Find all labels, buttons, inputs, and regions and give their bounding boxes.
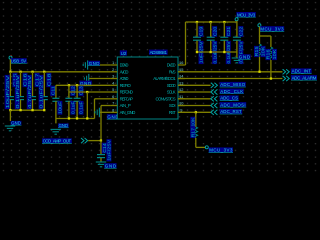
wire R15 bottom lead xyxy=(259,57,261,72)
ground filter cap xyxy=(96,162,106,167)
wire pullup bus xyxy=(260,35,271,37)
wire AIN_P drop xyxy=(100,106,102,141)
wire cap C21 upper lead xyxy=(223,22,225,37)
junction bank1 gnd 2 xyxy=(31,109,33,111)
junction AVDD bus 4 xyxy=(43,71,45,73)
wire cap C20 lower lead xyxy=(210,41,212,52)
wire REFCAP xyxy=(95,98,111,100)
ground AIN_GND xyxy=(95,108,99,117)
junction AVDD bus 1 xyxy=(9,71,11,73)
svg-text:0.1uF/25V: 0.1uF/25V xyxy=(15,75,20,108)
value R15 10K xyxy=(261,46,266,57)
designator C20 xyxy=(212,26,217,37)
capacitor C14 xyxy=(97,155,105,158)
wire cap C13 upper lead xyxy=(76,85,78,98)
designator C11 xyxy=(50,86,55,96)
wire cap C17 lower lead xyxy=(32,100,34,111)
wire AIN_GND xyxy=(100,111,111,113)
junction bank1 gnd 3 xyxy=(43,109,45,111)
value 0.1uF/25V xyxy=(39,75,44,109)
svg-text:R16: R16 xyxy=(266,49,271,60)
pin 11 stub xyxy=(178,98,185,100)
designator C15 xyxy=(13,73,18,88)
svg-text:6: 6 xyxy=(112,94,114,99)
designator C19 xyxy=(199,26,204,37)
net label MCU_3V3 bottom xyxy=(209,147,233,152)
capacitor C16 xyxy=(17,97,24,100)
pin 9 stub xyxy=(178,111,185,113)
chevron CCD_AMP_OUT xyxy=(81,138,88,143)
svg-text:0.1uF: 0.1uF xyxy=(79,101,84,114)
junction AVDD bus 3 xyxy=(31,71,33,73)
wire R16 top lead xyxy=(270,36,272,47)
wire bank1 gnd stem xyxy=(9,110,11,121)
wire ADC_CLK xyxy=(178,91,211,93)
designator C13 xyxy=(79,86,84,96)
junction bank3 gnd at 211 xyxy=(210,51,212,53)
svg-text:R17 10K: R17 10K xyxy=(190,117,195,137)
wire bank3 gnd bus xyxy=(197,51,237,53)
junction bank2 gnd 3 xyxy=(86,117,88,119)
chevron ADC_ALARM xyxy=(283,76,290,81)
svg-text:ADC_ALARM: ADC_ALARM xyxy=(292,75,317,80)
svg-text:GND: GND xyxy=(11,120,21,125)
pin 4 stub xyxy=(110,84,117,86)
svg-text:MCU_3V3: MCU_3V3 xyxy=(237,12,256,17)
capacitor C21 xyxy=(220,37,228,40)
net label USB_5V xyxy=(10,58,27,63)
svg-text:AGND: AGND xyxy=(120,76,129,81)
svg-text:RVS: RVS xyxy=(169,70,176,75)
capacitor C12 xyxy=(65,98,72,101)
op-amp U2 ADS8681 body xyxy=(117,57,178,119)
capacitor C20 xyxy=(207,37,215,40)
pin 2 stub xyxy=(110,71,117,73)
wire cap C22 upper lead xyxy=(236,22,238,37)
resistor R15 xyxy=(258,44,262,57)
svg-text:GND: GND xyxy=(89,61,100,66)
pin 12 stub xyxy=(178,91,185,93)
chevron ADC_RST xyxy=(211,110,218,115)
ground label GND filter xyxy=(104,163,116,168)
junction REFIO bus 2 xyxy=(76,84,78,86)
wire cap C12 upper lead xyxy=(68,85,70,98)
capacitor C19 xyxy=(193,37,201,40)
power port MCU_3V3 top circle xyxy=(235,18,238,21)
svg-text:ADC_INT: ADC_INT xyxy=(292,69,312,74)
svg-text:8: 8 xyxy=(112,108,114,113)
designator C22 xyxy=(238,26,243,37)
ground label GND ain_gnd xyxy=(107,114,119,119)
wire bank2 gnd stem xyxy=(55,119,57,124)
svg-text:CONVST/CS: CONVST/CS xyxy=(156,97,176,102)
wire cap C16 upper lead xyxy=(20,72,22,97)
pin 7 stub xyxy=(110,105,117,107)
value 10uF/25V xyxy=(5,75,10,109)
junction bank3 gnd at 224 xyxy=(223,51,225,53)
pin hotspot dot xyxy=(11,55,12,56)
pin 15 stub xyxy=(178,71,185,73)
wire cap C11 lower lead xyxy=(55,101,57,118)
value 0.1uF xyxy=(79,101,84,115)
wire AVDD bus xyxy=(10,71,110,73)
junction AVDD bus 2 xyxy=(19,71,21,73)
svg-text:7: 7 xyxy=(112,101,114,106)
junction CCD node xyxy=(100,139,102,141)
pin 14 stub xyxy=(178,78,185,80)
wire RVS to ADC_INT xyxy=(178,71,282,73)
ground label GND dgnd xyxy=(88,61,100,66)
value 1uF/25V xyxy=(199,41,204,64)
designator R15 xyxy=(254,46,259,57)
designator C21 xyxy=(226,26,231,37)
svg-text:GND: GND xyxy=(105,164,116,169)
svg-text:AIN_GND: AIN_GND xyxy=(120,110,136,115)
wire cap C13 lower lead xyxy=(76,101,78,118)
chevron ADC_INT xyxy=(283,69,290,74)
wire cap C18 lower lead xyxy=(43,100,45,111)
power port MCU_3V3 mid circle xyxy=(258,24,261,27)
svg-text:ADS8681: ADS8681 xyxy=(150,50,168,55)
wire USB_5V drop xyxy=(9,59,11,72)
pin 1 stub xyxy=(110,64,117,66)
capacitor C18 xyxy=(41,97,48,100)
svg-text:C11: C11 xyxy=(50,86,55,96)
net label ADC_ALARM xyxy=(291,75,317,80)
designator C17 xyxy=(35,73,40,88)
net label CCD_AMP_OUT xyxy=(42,138,72,143)
svg-text:C20: C20 xyxy=(212,26,217,36)
svg-text:ADC_CLK: ADC_CLK xyxy=(220,89,243,94)
chevron ADC_MISO xyxy=(211,83,218,88)
wire R17 to MCU_3V3 xyxy=(196,146,205,148)
wire REFGND xyxy=(69,91,111,93)
wire cap C17 upper lead xyxy=(32,72,34,97)
svg-text:1uF/25V: 1uF/25V xyxy=(107,140,112,161)
svg-text:16: 16 xyxy=(179,60,183,65)
net label ADC_INT xyxy=(291,68,312,73)
junction bank2 gnd 2 xyxy=(76,117,78,119)
net label MCU_3V3 top xyxy=(236,12,255,17)
designator C14 xyxy=(102,143,107,154)
svg-text:DVDD: DVDD xyxy=(167,63,176,68)
svg-text:5: 5 xyxy=(112,87,114,92)
wire cap C15 lower lead xyxy=(9,100,11,111)
chevron ADC_CS xyxy=(211,96,218,101)
wire DVDD riser xyxy=(185,22,187,65)
svg-text:C12: C12 xyxy=(71,86,76,96)
wire bank2 gnd bus xyxy=(56,118,95,120)
capacitor C17 xyxy=(29,97,36,100)
junction bank1 gnd 0 xyxy=(9,109,11,111)
svg-text:REFCAP: REFCAP xyxy=(120,97,134,102)
junction REFGND xyxy=(86,91,88,93)
svg-text:ALARM/SDO1: ALARM/SDO1 xyxy=(153,76,176,81)
wire R17 top lead xyxy=(195,112,197,127)
wire ADC_MISO xyxy=(178,84,211,86)
svg-text:ADC_MISO: ADC_MISO xyxy=(220,82,246,87)
capacitor C15 xyxy=(7,97,14,100)
svg-text:CCD_AMP_OUT: CCD_AMP_OUT xyxy=(43,139,72,144)
wire REFIO cap1 drop xyxy=(55,85,57,98)
wire bank1 gnd bus xyxy=(10,109,44,111)
ground label GND agnd xyxy=(79,81,91,86)
wire cap C20 upper lead xyxy=(210,22,212,37)
net label ADC_MISO xyxy=(220,82,246,87)
value R16 10K xyxy=(272,49,277,60)
value 0.1uF xyxy=(70,101,75,115)
ground AGND xyxy=(84,74,88,83)
wire CCD_AMP_OUT xyxy=(88,140,101,142)
wire cap C19 lower lead xyxy=(196,41,198,52)
svg-text:DGND: DGND xyxy=(120,63,129,68)
capacitor C11 xyxy=(52,98,59,101)
wire filter cap upper lead xyxy=(100,141,102,155)
wire cap C19 upper lead xyxy=(196,22,198,37)
wire R15 top lead xyxy=(259,36,261,44)
wire pullup drop xyxy=(259,27,261,36)
value 4.7uF/25V xyxy=(27,75,32,109)
part name ADS8681 xyxy=(149,50,168,56)
wire DVDD bus xyxy=(186,21,237,23)
pin 8 stub xyxy=(110,111,117,113)
svg-text:10uF/25V: 10uF/25V xyxy=(5,75,10,108)
pin 6 stub xyxy=(110,98,117,100)
resistor R17 xyxy=(194,127,198,138)
pin 3 stub xyxy=(110,78,117,80)
chevron ADC_CLK xyxy=(211,89,218,94)
wire R16 bottom lead xyxy=(270,60,272,79)
ground DGND xyxy=(83,60,87,69)
wire cap C21 lower lead xyxy=(223,41,225,52)
wire DGND xyxy=(88,64,110,66)
junction DVDD bus at 224 xyxy=(223,21,225,23)
junction RST pullup xyxy=(195,111,197,113)
junction DVDD bus at 197 xyxy=(196,21,198,23)
wire ADC_MOSI xyxy=(178,105,211,107)
svg-text:10uF: 10uF xyxy=(58,101,63,114)
svg-text:3: 3 xyxy=(112,74,114,79)
svg-text:ADC_MOSI: ADC_MOSI xyxy=(220,102,245,107)
wire ADC_RST xyxy=(178,111,211,113)
wire R17 bottom lead xyxy=(195,138,197,147)
svg-text:USB_5V: USB_5V xyxy=(11,59,27,64)
ground label GND bank2 xyxy=(58,123,69,128)
svg-text:REFIO: REFIO xyxy=(120,83,132,88)
ground bank2 xyxy=(51,129,61,134)
svg-text:SDI: SDI xyxy=(169,103,176,108)
value 0.1uF/25V xyxy=(226,41,231,64)
svg-text:ADC_RST: ADC_RST xyxy=(220,109,242,114)
svg-text:C18: C18 xyxy=(47,73,52,87)
wire AGND xyxy=(89,78,110,80)
svg-text:10K: 10K xyxy=(272,49,277,59)
junction R15 ADC_INT xyxy=(258,71,260,73)
svg-text:4.7uF/25V: 4.7uF/25V xyxy=(27,75,32,108)
svg-text:0.1uF: 0.1uF xyxy=(71,101,76,114)
ground label GND bank1 xyxy=(11,120,22,125)
designator value R17 10K xyxy=(190,117,195,138)
svg-text:C13: C13 xyxy=(79,86,84,96)
svg-text:C19: C19 xyxy=(199,26,204,36)
svg-text:1: 1 xyxy=(112,60,114,65)
chevron ADC_MOSI xyxy=(211,103,218,108)
svg-text:C22: C22 xyxy=(239,26,244,36)
designator R16 xyxy=(265,49,270,60)
svg-text:SDO0: SDO0 xyxy=(167,83,177,88)
value 10uF xyxy=(57,101,62,115)
designator C16 xyxy=(23,73,28,88)
net label ADC_CLK xyxy=(220,89,244,94)
wire cap C15 upper lead xyxy=(9,72,11,97)
svg-text:SCLK: SCLK xyxy=(167,90,176,95)
wire cap C12 lower lead xyxy=(68,101,70,118)
pin 10 stub xyxy=(178,105,185,107)
svg-text:C21: C21 xyxy=(226,26,231,36)
wire cap C22 lower lead xyxy=(236,41,238,52)
value 0.1uF/25V xyxy=(238,41,243,64)
wire cap C16 lower lead xyxy=(20,100,22,111)
svg-text:RST: RST xyxy=(169,110,176,115)
ground bank3 xyxy=(232,58,242,63)
capacitor C13 xyxy=(74,98,81,101)
wire REFCAP drop xyxy=(94,99,96,119)
wire MCU_3V3 drop xyxy=(236,21,238,22)
pin 5 stub xyxy=(110,91,117,93)
designator C12 xyxy=(70,86,75,96)
svg-text:ADC_CS: ADC_CS xyxy=(220,96,238,101)
svg-text:0.1uF/25V: 0.1uF/25V xyxy=(39,75,44,108)
value 0.1uF/25V xyxy=(15,75,20,109)
value 0.1uF/25V xyxy=(212,41,217,64)
net label MCU_3V3 mid xyxy=(260,26,284,31)
junction R16 ADC_ALARM xyxy=(270,77,272,79)
ground label GND bank3 xyxy=(238,54,250,59)
wire bank3 gnd stem xyxy=(236,52,238,58)
net label ADC_RST xyxy=(220,109,243,114)
capacitor C22 xyxy=(233,37,241,40)
junction bank3 gnd at 197 xyxy=(196,51,198,53)
svg-text:AVDD: AVDD xyxy=(120,70,129,75)
net label ADC_MOSI xyxy=(220,102,247,107)
wire DVDD xyxy=(184,64,187,66)
svg-text:2: 2 xyxy=(112,67,114,72)
svg-text:GND: GND xyxy=(59,123,68,128)
junction bank2 gnd 1 xyxy=(68,117,70,119)
junction bank1 gnd 1 xyxy=(19,109,21,111)
value 0.1uF/25V xyxy=(107,139,112,161)
ground bank1 xyxy=(5,126,15,131)
svg-text:MCU_3V3: MCU_3V3 xyxy=(260,27,284,32)
resistor R16 xyxy=(269,47,273,60)
svg-text:MCU_3V3: MCU_3V3 xyxy=(209,148,233,153)
svg-text:R15: R15 xyxy=(254,46,259,57)
svg-text:U2: U2 xyxy=(121,51,127,56)
junction DVDD bus at 211 xyxy=(210,21,212,23)
junction REFIO bus 1 xyxy=(68,84,70,86)
wire REFGND drop xyxy=(86,92,88,119)
designator C18 xyxy=(46,73,51,88)
svg-text:GND: GND xyxy=(239,55,250,60)
power port MCU_3V3 bottom circle xyxy=(205,146,208,149)
designator U2 xyxy=(120,50,127,56)
svg-text:REFGND: REFGND xyxy=(120,90,133,95)
wire ADC_CS xyxy=(178,98,211,100)
power port USB_5V circle xyxy=(9,56,12,59)
wire cap C18 upper lead xyxy=(43,72,45,97)
wire AIN_P xyxy=(101,105,110,107)
wire REFIO bus xyxy=(56,84,111,86)
pin 13 stub xyxy=(178,84,185,86)
svg-text:AIN_P: AIN_P xyxy=(120,103,131,108)
wire filter cap lower lead xyxy=(100,158,102,162)
net label ADC_CS xyxy=(220,95,239,100)
pin 16 stub xyxy=(178,64,185,66)
wire ALARM to ADC_ALARM xyxy=(178,78,282,80)
